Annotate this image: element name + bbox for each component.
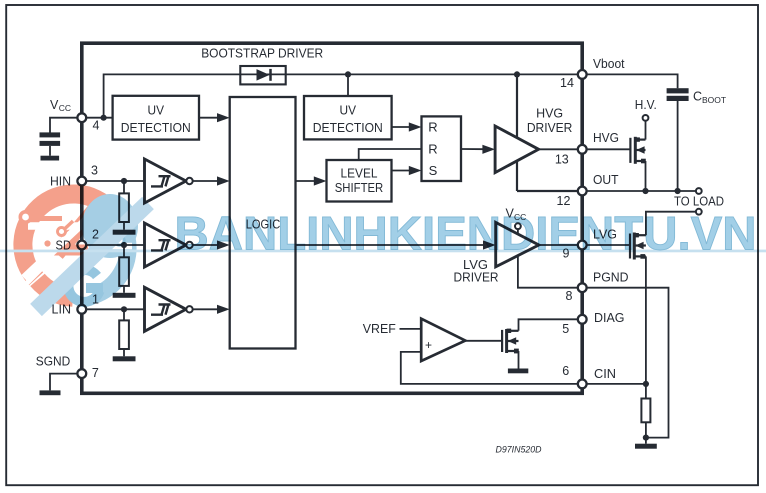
- svg-text:BOOT: BOOT: [702, 95, 726, 105]
- node bootstrap rail to UV2: [345, 71, 351, 77]
- svg-text:C: C: [693, 89, 702, 103]
- svg-text:3: 3: [91, 164, 98, 178]
- svg-text:OUT: OUT: [593, 173, 619, 187]
- wire DIAG mosfet drain to pin 5: [519, 319, 583, 331]
- wire LVG driver ground to PGND pin 8: [518, 255, 582, 287]
- ground (DIAG mosfet): [508, 369, 528, 374]
- logo blue disc: [82, 194, 138, 258]
- node CIN junction: [643, 381, 649, 387]
- svg-text:HVG: HVG: [593, 131, 619, 145]
- wire schmitt1 to logic: [193, 180, 220, 182]
- wire UV1 to logic: [199, 117, 220, 119]
- wire DIAG mosfet source to ground: [518, 351, 520, 369]
- transistor Q2 (low side LVG): [629, 234, 631, 259]
- wire bootstrap rail riser: [104, 74, 241, 117]
- svg-text:7: 7: [92, 366, 99, 380]
- wire HIN pulldown: [123, 181, 125, 193]
- svg-text:DETECTION: DETECTION: [313, 120, 383, 135]
- wire SGND pin to ground: [50, 374, 82, 391]
- wire LVG mosfet source down to CIN node: [645, 256, 647, 384]
- svg-text:H.V.: H.V.: [635, 98, 657, 112]
- wire LVG driver to pin 9: [539, 244, 582, 246]
- logo salmon pad circle: [20, 212, 30, 222]
- logo white cuts in blue disc: [82, 206, 141, 268]
- wire load terminal 2 to LVG mosfet drain: [646, 212, 696, 236]
- wire logic to level shifter: [296, 180, 318, 182]
- pin 13 HVG: [578, 145, 587, 154]
- svg-text:SHIFTER: SHIFTER: [335, 180, 384, 195]
- resistor R (SD input): [119, 257, 129, 286]
- svg-text:BANLINHKIENDIENTU.VN: BANLINHKIENDIENTU.VN: [175, 206, 757, 259]
- wire Vcc pin to decoupling cap: [50, 118, 82, 133]
- wire SD pulldown: [123, 245, 125, 257]
- svg-text:S: S: [429, 163, 438, 178]
- pin 7 SGND: [77, 369, 86, 378]
- svg-text:UV: UV: [340, 103, 357, 118]
- wire VREF to comparator: [400, 328, 422, 330]
- schmitt trigger buffer U1 (HIN): [145, 159, 187, 203]
- wire schmitt2 to logic: [193, 244, 220, 246]
- svg-text:LEVEL: LEVEL: [341, 166, 378, 181]
- svg-text:DRIVER: DRIVER: [454, 270, 499, 285]
- wire comparator output to DIAG mosfet gate: [465, 340, 502, 342]
- wire H.V. to HVG mosfet drain: [645, 121, 647, 140]
- node HIN junction: [121, 178, 127, 184]
- op-amp HVG driver buffer: [495, 126, 538, 173]
- watermark group: [0, 189, 766, 310]
- wire HVG mosfet source to OUT line: [645, 161, 647, 191]
- logo white stripe cuts in salmon: [28, 222, 94, 230]
- transistor Q3 (DIAG open drain): [501, 330, 503, 352]
- wire UV2 to RS latch R input: [392, 126, 412, 128]
- logo salmon small pad: [58, 228, 66, 236]
- svg-text:R: R: [428, 142, 437, 157]
- svg-text:BOOTSTRAP DRIVER: BOOTSTRAP DRIVER: [201, 47, 323, 61]
- node sense resistor bottom: [643, 435, 649, 441]
- diode D1 (bootstrap): [257, 69, 270, 81]
- wire bootstrap rail: [240, 73, 582, 75]
- wire comparator + input from CIN: [401, 352, 582, 384]
- svg-text:VREF: VREF: [363, 322, 396, 336]
- logo salmon dot: [44, 240, 50, 246]
- svg-text:D97IN520D: D97IN520D: [496, 445, 542, 456]
- svg-text:+: +: [425, 338, 432, 352]
- svg-text:4: 4: [93, 119, 100, 133]
- ground (sense resistor): [645, 438, 647, 444]
- transistor Q1 (high side HVG): [629, 138, 631, 163]
- svg-text:CIN: CIN: [594, 367, 616, 381]
- svg-text:6: 6: [562, 364, 569, 378]
- svg-text:8: 8: [566, 289, 573, 303]
- svg-text:R: R: [428, 120, 437, 135]
- wire schmitt3 to logic: [193, 308, 220, 310]
- pin 4 Vcc: [77, 113, 86, 122]
- svg-text:UV: UV: [148, 103, 165, 118]
- pin 14 Vboot: [578, 70, 587, 79]
- watermark underline: [0, 250, 766, 253]
- op-amp comparator (current sense): [421, 319, 465, 361]
- wire level shifter to RS latch S input: [392, 170, 413, 172]
- pin 1 LIN: [77, 305, 86, 314]
- wire pin 9 to LVG mosfet gate: [582, 244, 630, 246]
- svg-text:Vboot: Vboot: [593, 57, 625, 71]
- svg-text:PGND: PGND: [593, 271, 629, 285]
- wire OUT pin 12 to load terminal: [582, 190, 696, 192]
- logo salmon lower left lobe: [38, 280, 73, 297]
- bootstrap diode box: [240, 66, 285, 84]
- wire HIN pin to schmitt input: [82, 180, 145, 182]
- svg-text:HVG: HVG: [536, 106, 563, 121]
- svg-text:14: 14: [560, 76, 574, 90]
- wire CIN pin 6 external to sense resistor: [582, 383, 646, 385]
- resistor R (current sense): [645, 384, 647, 399]
- logic box U5: [230, 97, 296, 349]
- wire LIN pulldown: [123, 309, 125, 320]
- TO LOAD terminal 2: [696, 209, 702, 215]
- ground (SGND): [40, 390, 61, 395]
- wire SD pin to schmitt input: [82, 244, 145, 246]
- schmitt trigger buffer U2 (SD): [145, 223, 187, 267]
- svg-text:SGND: SGND: [36, 354, 71, 368]
- logo blue diagonal band: [36, 203, 148, 310]
- ground (LIN resistor): [113, 356, 136, 361]
- logo salmon Z diagonal arm: [57, 196, 106, 254]
- logo salmon ring arc upper: [23, 194, 111, 279]
- IC body outline: [82, 43, 582, 393]
- pin 12 OUT: [578, 187, 587, 196]
- UV detection box U4: [113, 96, 199, 140]
- schmitt trigger buffer U3 (LIN): [145, 287, 187, 331]
- Vcc terminal of LVG driver: [517, 228, 519, 235]
- ground (HIN resistor): [113, 230, 136, 235]
- pin 5 DIAG: [578, 315, 587, 324]
- wire pin 13 to HVG mosfet gate: [582, 148, 630, 150]
- node Cboot on OUT: [675, 188, 681, 194]
- wire LIN pin to schmitt input: [82, 308, 145, 310]
- node Vcc junction: [101, 115, 107, 121]
- pin 9 LVG: [578, 241, 587, 250]
- svg-text:CC: CC: [59, 103, 71, 113]
- svg-text:5: 5: [562, 322, 569, 336]
- wire HVG driver to pin 13: [539, 148, 583, 150]
- wire rail to UV detection 2: [347, 74, 349, 96]
- wire RS latch to HVG driver: [461, 148, 486, 150]
- wire logic to LVG driver: [296, 244, 487, 246]
- ground (Vcc cap): [41, 156, 60, 161]
- capacitor C (Vcc decoupling): [40, 132, 61, 137]
- logo salmon trace: [31, 216, 62, 221]
- node rail at HVG driver corner: [514, 71, 520, 77]
- capacitor C_BOOT: [667, 88, 689, 93]
- op-amp LVG driver buffer: [496, 222, 539, 266]
- HVG driver block outline: [516, 74, 518, 191]
- resistor R (HIN input): [119, 193, 129, 222]
- ground (SD resistor): [113, 293, 136, 298]
- node SD junction: [121, 242, 127, 248]
- wire level shifter top to RS latch R input: [359, 149, 422, 160]
- RS latch box U8: [422, 116, 462, 181]
- UV detection box U6: [304, 96, 392, 139]
- svg-text:DRIVER: DRIVER: [527, 120, 573, 135]
- H.V. terminal: [643, 115, 649, 121]
- resistor R (LIN input): [119, 320, 129, 349]
- wire PGND pin 8 external to sense ground: [582, 288, 668, 438]
- wire Vboot external to Cboot: [582, 74, 677, 88]
- logo salmon Z horizontal stub: [54, 245, 88, 256]
- logo blue pad circle: [115, 236, 124, 245]
- pin 6 CIN: [578, 380, 587, 389]
- logo blue bottom right arc: [94, 237, 129, 295]
- svg-text:V: V: [50, 98, 59, 112]
- svg-text:13: 13: [555, 152, 569, 166]
- pin 2 SD: [77, 241, 86, 250]
- TO LOAD terminal 1: [696, 188, 702, 194]
- node LIN junction: [121, 306, 127, 312]
- pin 8 PGND: [578, 283, 587, 292]
- pin 3 HIN: [77, 177, 86, 186]
- node HVG source on OUT: [642, 188, 648, 194]
- level shifter box U7: [327, 160, 392, 202]
- wire Vcc pin to UV detection and bootstrap rail riser: [82, 117, 113, 119]
- svg-text:DIAG: DIAG: [594, 311, 625, 325]
- logo blue G glyph: [68, 270, 99, 302]
- svg-text:DETECTION: DETECTION: [121, 120, 191, 135]
